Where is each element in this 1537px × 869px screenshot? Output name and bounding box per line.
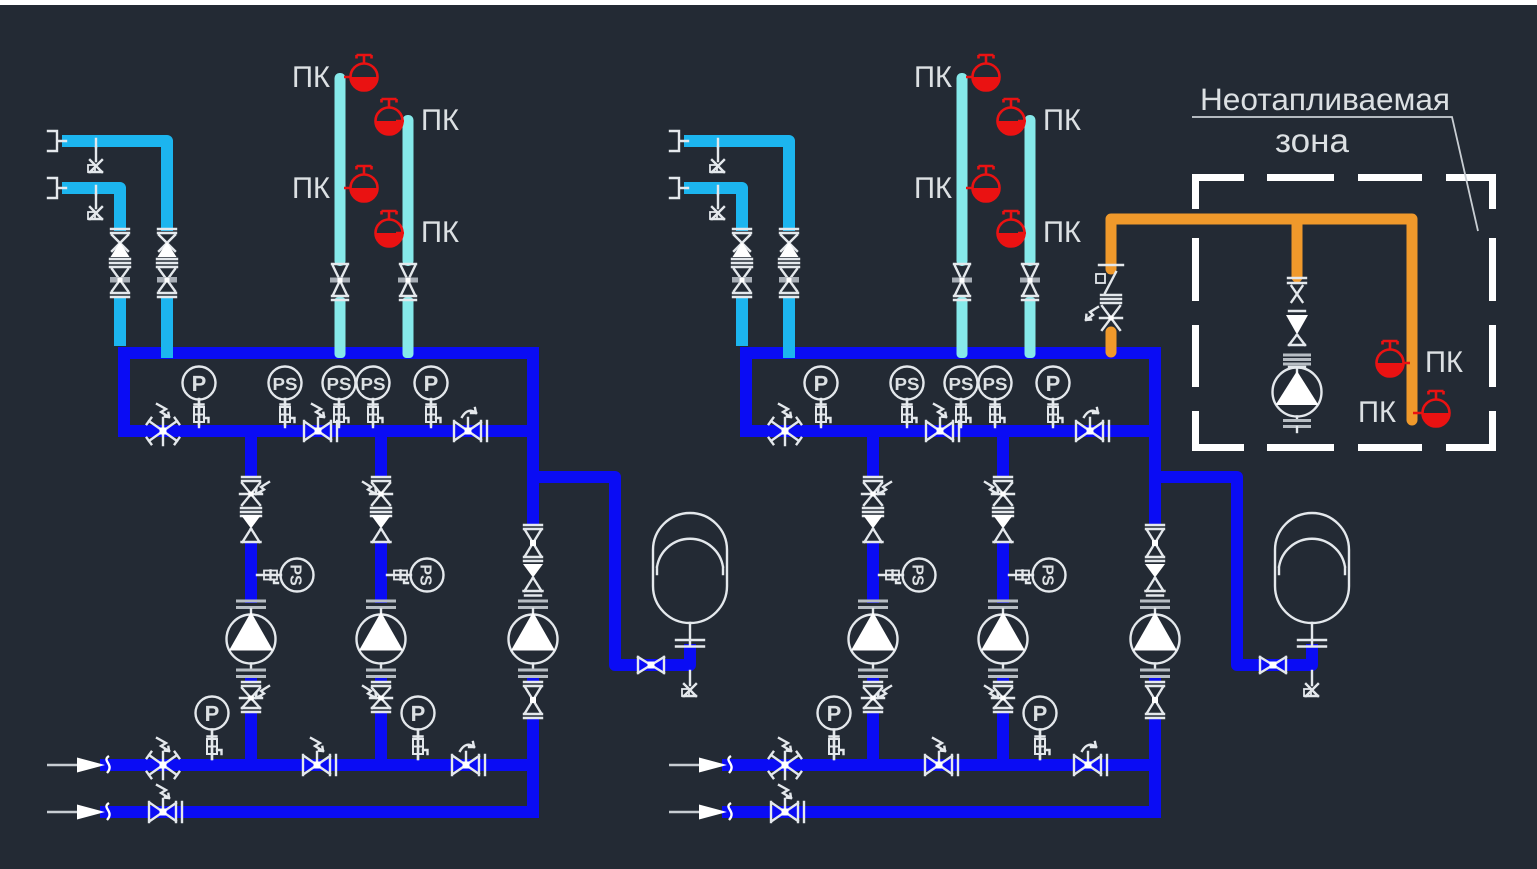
svg-text:Неотапливаемая: Неотапливаемая <box>1200 82 1450 117</box>
svg-text:ПК: ПК <box>1425 346 1464 379</box>
svg-text:ПК: ПК <box>1358 396 1397 429</box>
svg-text:зона: зона <box>1275 122 1350 159</box>
